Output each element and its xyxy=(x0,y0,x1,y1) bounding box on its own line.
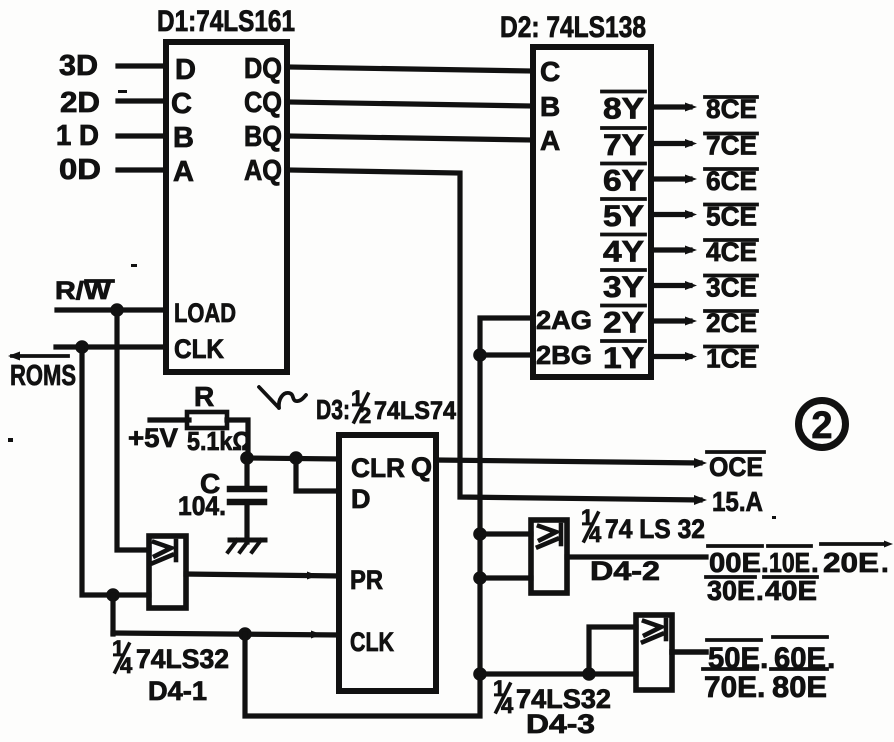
svg-text:BQ: BQ xyxy=(244,121,282,153)
svg-text:104.: 104. xyxy=(178,491,226,521)
wire AQ down to 15A output xyxy=(287,170,700,500)
arrowhead on CLK line xyxy=(311,631,322,639)
arrowhead on PR line xyxy=(307,572,318,580)
wire R/W to D1 LOAD xyxy=(57,307,166,312)
svg-text:CLK: CLK xyxy=(174,334,224,364)
wire D3 CLK line xyxy=(113,633,339,635)
OR gate D4-2 body xyxy=(531,520,567,593)
wire D2 output 7Y to 7CE xyxy=(651,141,690,146)
svg-text:CQ: CQ xyxy=(244,87,282,119)
svg-text:.: . xyxy=(756,575,764,606)
svg-text:DQ: DQ xyxy=(244,53,282,85)
svg-text:7Y: 7Y xyxy=(603,129,644,162)
wire +5V to resistor R xyxy=(150,417,189,422)
wire bottom bus to right vertical then up to 2AG xyxy=(245,318,533,716)
wire D4-3 output xyxy=(672,649,706,655)
svg-text:4: 4 xyxy=(120,653,133,678)
svg-text:74 LS 32: 74 LS 32 xyxy=(605,514,705,544)
svg-text:2D: 2D xyxy=(60,87,100,119)
page number circle 2 xyxy=(799,401,846,448)
junction CLR node at capacitor xyxy=(240,451,254,465)
wire jog up to D4-3 input 1 xyxy=(589,627,636,674)
svg-text:D4-2: D4-2 xyxy=(590,556,660,586)
overline over 0CE xyxy=(707,450,764,454)
svg-text:3Y: 3Y xyxy=(603,271,644,304)
wire to D2 pin 2BG xyxy=(480,352,533,357)
wire BQ to D2 pin A xyxy=(287,136,533,140)
overline over W of R/W xyxy=(86,279,113,283)
wire 2D to D1 pin C xyxy=(118,98,166,103)
OR gate D4-3 body xyxy=(636,615,672,690)
svg-text:00E: 00E xyxy=(709,547,761,578)
capacitor lead to ground xyxy=(244,502,249,542)
arrowhead 8CE xyxy=(685,103,697,112)
svg-text:4: 4 xyxy=(501,693,514,718)
svg-text:8Y: 8Y xyxy=(603,93,644,126)
wire D4-2 output xyxy=(567,554,706,559)
svg-text:D2: 74LS138: D2: 74LS138 xyxy=(500,11,646,44)
handwritten squiggle mark xyxy=(259,387,306,408)
wire bus to D4-2 input 2 xyxy=(480,575,531,580)
junction CLK bottom bus xyxy=(238,627,252,641)
ground symbol xyxy=(230,538,265,543)
vertical bus junction to D4-2 input 1 xyxy=(473,527,487,541)
capacitor C lead xyxy=(244,458,249,487)
svg-text:+5V: +5V xyxy=(128,423,178,453)
svg-text:2: 2 xyxy=(359,403,371,428)
wire node down to D3 pin D xyxy=(296,458,339,491)
vertical bus junction to D4-3 xyxy=(473,667,487,681)
svg-text:15.A: 15.A xyxy=(712,486,763,517)
arrowhead 6CE xyxy=(685,175,697,184)
arrowhead 5CE xyxy=(685,210,697,219)
svg-text:20E: 20E xyxy=(823,547,879,578)
wire 0D to D1 pin A xyxy=(118,167,166,172)
svg-text:Q: Q xyxy=(411,452,432,482)
arrowhead 7CE xyxy=(685,139,697,148)
svg-text:3D: 3D xyxy=(59,50,98,82)
svg-text:A: A xyxy=(173,156,194,188)
svg-text:D4-3: D4-3 xyxy=(526,709,595,739)
wire resistor to CLR node xyxy=(227,420,248,458)
wire junction down to D3 CLK line xyxy=(110,595,115,634)
arrowhead 3CE xyxy=(685,281,697,290)
wire ROMS to D1 CLK xyxy=(56,344,166,349)
wire D2 output 8Y to 8CE xyxy=(651,104,690,109)
wire CQ to D2 pin B xyxy=(287,102,533,106)
svg-text:D: D xyxy=(351,484,371,514)
wire D2 output 2Y to 2CE xyxy=(651,318,690,323)
svg-text:.: . xyxy=(811,547,819,578)
wire D4-1 output to D3 PR xyxy=(186,574,339,576)
svg-text:1Y: 1Y xyxy=(603,342,644,375)
IC D1 74LS161 counter box xyxy=(166,42,287,372)
svg-text:D3:: D3: xyxy=(316,394,350,425)
wire D3 Q output to 0CE label xyxy=(436,460,700,463)
svg-text:C: C xyxy=(171,88,192,120)
wire D2 output 6Y to 6CE xyxy=(651,176,690,181)
svg-text:4Y: 4Y xyxy=(603,236,644,269)
svg-text:5.1kΩ: 5.1kΩ xyxy=(187,426,251,456)
arrowhead 2CE xyxy=(685,317,697,326)
svg-text:2Y: 2Y xyxy=(603,307,644,340)
wire D2 output 1Y to 1CE xyxy=(651,354,690,359)
svg-text:CLK: CLK xyxy=(350,627,394,657)
svg-text:.: . xyxy=(761,547,769,578)
svg-text:LOAD: LOAD xyxy=(174,298,236,328)
gate D4-2 symbol >=1 xyxy=(538,525,561,547)
wire 1D to D1 pin B xyxy=(118,133,166,138)
junction D branch node xyxy=(289,451,303,465)
svg-text:1 D: 1 D xyxy=(56,120,99,152)
wire bus to D4-2 input 1 xyxy=(480,531,531,536)
capacitor C bottom plate xyxy=(230,499,264,506)
svg-text:PR: PR xyxy=(350,565,383,595)
junction ROMS to D3 clock branch xyxy=(106,588,120,602)
svg-text:B: B xyxy=(540,91,560,122)
svg-text:2: 2 xyxy=(811,405,832,447)
svg-text:D1:74LS161: D1:74LS161 xyxy=(157,5,295,38)
svg-text:10E: 10E xyxy=(769,547,810,578)
scan speckles xyxy=(8,90,776,519)
arrowhead 1CE xyxy=(685,352,697,361)
resistor R body xyxy=(187,412,227,428)
svg-text:80E: 80E xyxy=(772,671,827,704)
gate D4-1 symbol >=1 xyxy=(153,541,176,563)
junction ROMS branch xyxy=(75,340,89,354)
wire 3D to D1 pin D xyxy=(118,63,166,68)
svg-text:B: B xyxy=(173,122,194,154)
arrowhead 0CE xyxy=(694,458,707,468)
wire DQ to D2 pin C xyxy=(287,67,533,71)
overline over ROMS xyxy=(12,354,68,358)
wire ROMS down to gate D4-1 input 2 xyxy=(82,347,149,595)
svg-text:R: R xyxy=(194,381,214,412)
arrowhead 4CE xyxy=(685,246,697,255)
svg-text:A: A xyxy=(540,125,560,156)
svg-text:74LS32: 74LS32 xyxy=(136,644,229,674)
vertical bus junction to D4-2 input 2 xyxy=(473,571,487,585)
svg-text:40E: 40E xyxy=(765,575,817,606)
svg-text:70E: 70E xyxy=(704,671,757,704)
svg-text:.: . xyxy=(757,671,765,704)
junction R/W branch xyxy=(110,303,124,317)
svg-text:.: . xyxy=(881,547,889,578)
svg-text:5Y: 5Y xyxy=(603,200,644,233)
svg-text:OCE: OCE xyxy=(709,452,763,482)
svg-text:30E: 30E xyxy=(707,575,755,606)
IC D3 1/2 74LS74 flip-flop box xyxy=(339,435,436,691)
wire D2 output 3Y to 3CE xyxy=(651,283,690,288)
wire D2 output 5Y to 5CE xyxy=(651,212,690,217)
junction 2BG xyxy=(473,348,487,362)
svg-text:2AG: 2AG xyxy=(536,305,592,335)
wire CLR node to D3 CLR xyxy=(247,458,339,459)
capacitor C top plate xyxy=(230,486,264,493)
svg-text:D: D xyxy=(175,54,196,86)
svg-text:C: C xyxy=(540,56,560,87)
junction D4-3 input jog xyxy=(582,667,596,681)
gate D4-3 symbol >=1 xyxy=(643,620,666,642)
svg-text:4: 4 xyxy=(589,522,602,547)
arrowhead 15A xyxy=(694,495,707,505)
IC D2 74LS138 decoder box xyxy=(533,47,651,377)
wire bus to D4-3 input 2 xyxy=(480,671,636,676)
svg-text:2BG: 2BG xyxy=(536,340,592,370)
svg-text:6Y: 6Y xyxy=(603,165,644,198)
svg-text:AQ: AQ xyxy=(244,155,282,187)
svg-text:74LS74: 74LS74 xyxy=(374,397,456,425)
wire D2 output 4Y to 4CE xyxy=(651,247,690,252)
OR gate D4-1 body xyxy=(149,536,186,608)
svg-text:CLR: CLR xyxy=(351,453,405,483)
wire R/W down to gate D4-1 input 1 xyxy=(117,310,149,550)
svg-text:ROMS: ROMS xyxy=(10,360,76,392)
svg-text:0D: 0D xyxy=(59,154,101,186)
svg-text:D4-1: D4-1 xyxy=(148,676,207,706)
